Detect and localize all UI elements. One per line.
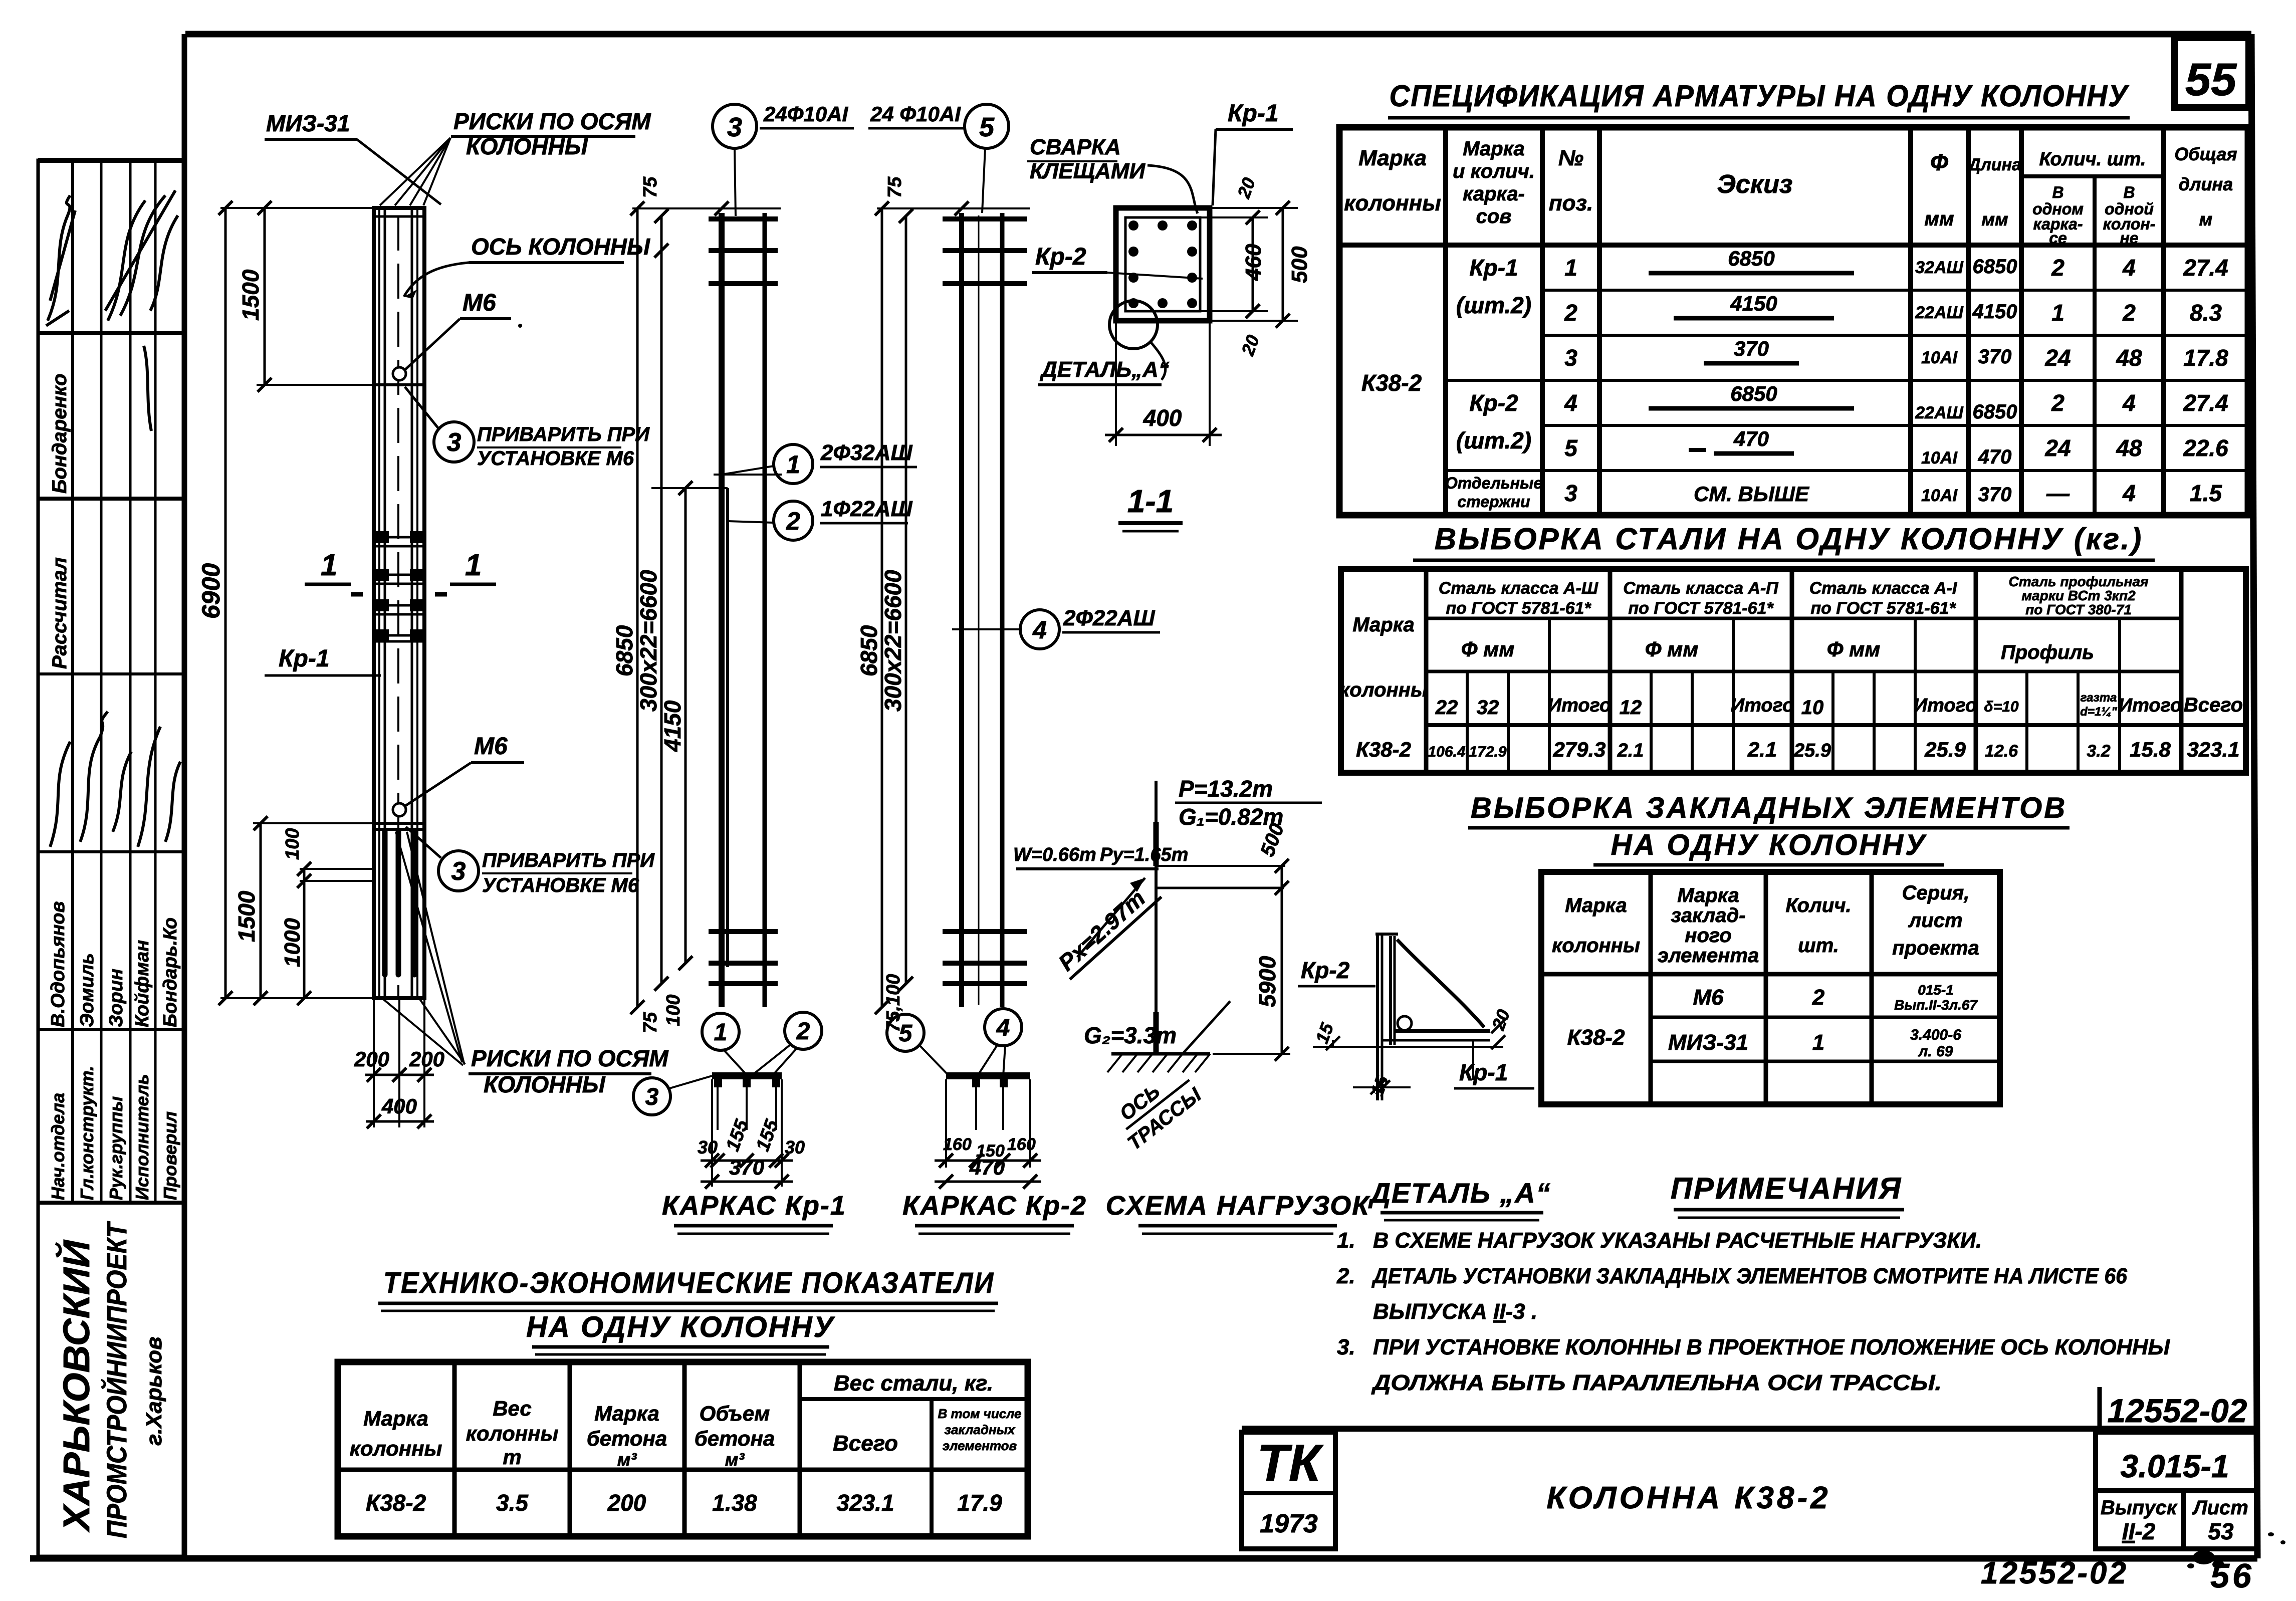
svg-text:3.: 3.: [1337, 1335, 1355, 1359]
svg-text:470: 470: [969, 1156, 1005, 1179]
svg-text:δ=10: δ=10: [1984, 699, 2019, 715]
svg-text:ДЕТАЛЬ „А“: ДЕТАЛЬ „А“: [1368, 1177, 1551, 1209]
callout 3 приварить (top): [405, 387, 650, 470]
svg-text:(шт.2): (шт.2): [1456, 427, 1531, 453]
svg-text:1Ф22АШ: 1Ф22АШ: [821, 497, 913, 521]
svg-text:по ГОСТ 5781-61*: по ГОСТ 5781-61*: [1628, 599, 1774, 618]
label сварка клещами: [1027, 135, 1198, 213]
svg-text:Кр-2: Кр-2: [1469, 390, 1518, 416]
svg-text:Р=13.2т: Р=13.2т: [1179, 776, 1273, 802]
dim 1500 bottom: [234, 816, 374, 1005]
svg-text:КОЛОННЫ: КОЛОННЫ: [484, 1071, 606, 1097]
svg-text:Марка: Марка: [1463, 138, 1525, 160]
svg-text:75: 75: [884, 176, 905, 198]
svg-text:2Ф22АШ: 2Ф22АШ: [1063, 606, 1156, 630]
svg-text:ного: ного: [1685, 925, 1731, 947]
Kr-1 dims: [611, 176, 781, 1033]
callout 3 24Ф10АІ above Kr-1: [713, 102, 854, 216]
svg-text:4150: 4150: [1730, 292, 1777, 315]
svg-text:Зорин: Зорин: [106, 969, 127, 1027]
svg-text:ХАРЬКОВСКИЙ: ХАРЬКОВСКИЙ: [55, 1239, 97, 1533]
svg-text:КАРКАС Кр-2: КАРКАС Кр-2: [902, 1191, 1087, 1221]
title: embedded elements table: [1468, 792, 2070, 865]
svg-text:Колич. шт.: Колич. шт.: [2039, 149, 2146, 170]
dim 100 1000: [280, 828, 374, 1005]
title: ТЭП table: [378, 1267, 998, 1354]
svg-text:КОЛОННА К38-2: КОЛОННА К38-2: [1546, 1481, 1830, 1515]
svg-text:Итого: Итого: [2119, 695, 2182, 716]
svg-text:3: 3: [451, 857, 466, 886]
svg-text:2: 2: [1812, 985, 1825, 1010]
svg-text:24Ф10АІ: 24Ф10АІ: [763, 102, 849, 126]
svg-text:бетона: бетона: [587, 1427, 667, 1450]
label Кр-1 on column: [265, 645, 381, 675]
specification table header text: [1344, 138, 2237, 247]
specification sketch column entries: [1649, 247, 1854, 506]
Kr-2 plan callouts: [887, 1009, 1022, 1076]
svg-text:Марка: Марка: [1352, 614, 1415, 636]
svg-text:шт.: шт.: [1798, 935, 1839, 957]
svg-text:d=1¼": d=1¼": [2080, 705, 2117, 719]
svg-text:1.: 1.: [1337, 1228, 1355, 1253]
svg-text:6850: 6850: [1730, 382, 1777, 405]
svg-text:370: 370: [1734, 337, 1769, 360]
svg-text:2.: 2.: [1336, 1264, 1355, 1288]
svg-text:200: 200: [409, 1047, 444, 1071]
ink blots near sheet number: [2187, 1532, 2285, 1568]
svg-text:75: 75: [640, 176, 661, 198]
svg-text:Кр-1: Кр-1: [279, 645, 330, 672]
svg-text:Рук.группы: Рук.группы: [106, 1096, 126, 1200]
dim 1500 top: [238, 201, 396, 392]
svg-text:проекта: проекта: [1892, 937, 1979, 959]
svg-text:15.8: 15.8: [2130, 738, 2171, 761]
svg-text:ПРИВАРИТЬ ПРИ: ПРИВАРИТЬ ПРИ: [477, 423, 650, 445]
svg-text:2: 2: [796, 1018, 810, 1045]
svg-text:НА ОДНУ КОЛОННУ: НА ОДНУ КОЛОННУ: [526, 1311, 835, 1343]
svg-text:Сталь класса А-І: Сталь класса А-І: [1809, 579, 1958, 598]
callout 5 24Ф10АІ above Kr-2: [868, 102, 1009, 213]
svg-text:(шт.2): (шт.2): [1456, 292, 1531, 318]
svg-text:2.1: 2.1: [1747, 738, 1777, 761]
svg-text:В.Одопьянов: В.Одопьянов: [48, 901, 69, 1027]
svg-text:2: 2: [2051, 390, 2064, 416]
svg-text:470: 470: [1978, 446, 2012, 468]
svg-text:W=0.66т: W=0.66т: [1013, 844, 1096, 865]
svg-text:СПЕЦИФИКАЦИЯ АРМАТУРЫ НА ОД: СПЕЦИФИКАЦИЯ АРМАТУРЫ НА ОДНУ КОЛОННУ: [1390, 79, 2130, 113]
svg-text:ОСЬ КОЛОННЫ: ОСЬ КОЛОННЫ: [471, 234, 650, 260]
callout circle 4 on Kr-2: [1020, 606, 1160, 649]
svg-text:длина: длина: [2179, 174, 2233, 194]
title block: [1242, 1429, 2257, 1549]
svg-text:м³: м³: [617, 1449, 637, 1470]
svg-text:470: 470: [1733, 427, 1769, 450]
svg-text:Кр-2: Кр-2: [1035, 244, 1086, 270]
svg-text:ВЫБОРКА СТАЛИ НА ОДНУ КОЛО: ВЫБОРКА СТАЛИ НА ОДНУ КОЛОННУ (кг.): [1435, 522, 2143, 556]
svg-text:МИЗ-31: МИЗ-31: [1668, 1030, 1748, 1055]
svg-text:по ГОСТ 5781-61*: по ГОСТ 5781-61*: [1446, 599, 1591, 618]
svg-text:6850: 6850: [1973, 256, 2017, 278]
label Кр-2 section: [1032, 244, 1203, 279]
svg-text:1-1: 1-1: [1127, 483, 1174, 519]
Kr-1 plan view: [712, 1072, 782, 1168]
svg-text:Ф: Ф: [1930, 149, 1948, 175]
dim 200 200 400 below column: [354, 998, 444, 1128]
detail A circle on section: [1038, 301, 1170, 385]
svg-text:Вес стали, кг.: Вес стали, кг.: [834, 1371, 993, 1396]
detail A drawing: [1313, 933, 1503, 1100]
handwritten bottom numbers: [1981, 1556, 2254, 1595]
svg-text:Колич.: Колич.: [1785, 894, 1851, 917]
steel selection table text: [1339, 574, 2243, 761]
svg-text:марки ВСт 3кп2: марки ВСт 3кп2: [2021, 588, 2136, 603]
sidebar signatures scribbles: [46, 190, 180, 847]
svg-text:10АІ: 10АІ: [1921, 448, 1958, 468]
svg-text:1500: 1500: [234, 890, 260, 942]
svg-text:м³: м³: [725, 1449, 745, 1470]
svg-text:2.1: 2.1: [1617, 740, 1644, 761]
Kr-2 plan dims: [935, 1135, 1041, 1189]
svg-text:4: 4: [1564, 390, 1577, 416]
svg-text:Марка: Марка: [1358, 146, 1427, 170]
svg-text:8.3: 8.3: [2190, 300, 2222, 326]
svg-text:10: 10: [1801, 697, 1824, 719]
svg-text:G₂=3.3т: G₂=3.3т: [1084, 1022, 1177, 1048]
svg-text:Марка: Марка: [1677, 884, 1739, 906]
svg-text:4150: 4150: [1972, 301, 2017, 323]
risk diagonal leaders bottom: [381, 832, 465, 1065]
svg-text:КАРКАС Кр-1: КАРКАС Кр-1: [662, 1191, 846, 1221]
svg-text:л. 69: л. 69: [1918, 1043, 1953, 1060]
svg-text:106.4: 106.4: [1428, 744, 1465, 760]
svg-text:Всего: Всего: [2184, 694, 2243, 716]
svg-text:Вес: Вес: [493, 1397, 532, 1420]
svg-text:5: 5: [979, 112, 995, 142]
svg-text:32: 32: [1477, 697, 1499, 719]
svg-text:3.015-1: 3.015-1: [2120, 1448, 2229, 1484]
svg-text:К38-2: К38-2: [1567, 1025, 1625, 1050]
dim 6900: [197, 201, 374, 1005]
specification table grid: [1339, 127, 2248, 515]
svg-text:Сталь класса А-П: Сталь класса А-П: [1623, 579, 1779, 598]
svg-text:Всего: Всего: [833, 1431, 898, 1456]
column M6 circles: [393, 367, 406, 816]
svg-text:Сталь профильная: Сталь профильная: [2008, 574, 2148, 589]
svg-text:В: В: [2123, 183, 2135, 201]
svg-text:ПРОМСТРОЙНИИПРОЕКТ: ПРОМСТРОЙНИИПРОЕКТ: [101, 1221, 132, 1538]
svg-text:Ф мм: Ф мм: [1827, 637, 1881, 661]
svg-text:Эомиль: Эомиль: [77, 953, 98, 1027]
svg-text:200: 200: [354, 1047, 389, 1071]
svg-text:РИСКИ ПО ОСЯМ: РИСКИ ПО ОСЯМ: [471, 1045, 669, 1071]
svg-text:2: 2: [2122, 300, 2136, 326]
svg-text:400: 400: [381, 1094, 417, 1118]
svg-text:12552-02: 12552-02: [2108, 1392, 2247, 1429]
title: steel selection table: [1413, 522, 2155, 560]
svg-text:160: 160: [943, 1135, 972, 1154]
svg-text:370: 370: [1978, 484, 2012, 506]
svg-text:1: 1: [714, 1019, 728, 1046]
svg-text:Профиль: Профиль: [2001, 641, 2094, 663]
svg-text:ПРИВАРИТЬ ПРИ: ПРИВАРИТЬ ПРИ: [482, 849, 655, 871]
svg-text:М6: М6: [474, 733, 508, 760]
svg-text:Итого: Итого: [1914, 695, 1977, 716]
svg-text:323.1: 323.1: [2187, 738, 2239, 761]
svg-text:1: 1: [1812, 1030, 1824, 1055]
svg-text:Эскиз: Эскиз: [1717, 170, 1793, 199]
svg-text:6850: 6850: [856, 625, 882, 676]
svg-text:30: 30: [785, 1137, 805, 1158]
svg-text:Исполнитель: Исполнитель: [132, 1074, 152, 1200]
label риски по осям колонны (top): [380, 108, 651, 205]
svg-text:1973: 1973: [1260, 1509, 1318, 1538]
steel selection table grid: [1341, 569, 2246, 773]
svg-text:015-1: 015-1: [1918, 982, 1954, 998]
svg-text:279.3: 279.3: [1552, 738, 1605, 761]
svg-text:5: 5: [1564, 435, 1578, 461]
svg-text:закладных: закладных: [945, 1422, 1016, 1437]
svg-text:Вып.ІІ-3л.67: Вып.ІІ-3л.67: [1894, 997, 1978, 1013]
svg-text:колонны: колонны: [1339, 679, 1428, 701]
svg-text:по ГОСТ 380-71: по ГОСТ 380-71: [2025, 602, 2132, 617]
svg-text:22АШ: 22АШ: [1915, 403, 1963, 422]
column stirrup splice bands: [374, 531, 424, 641]
svg-text:17.9: 17.9: [957, 1490, 1002, 1516]
svg-text:Проверил: Проверил: [160, 1111, 180, 1200]
svg-text:Гл.конструкт.: Гл.конструкт.: [77, 1066, 97, 1200]
svg-text:32АШ: 32АШ: [1915, 258, 1963, 277]
svg-text:К38-2: К38-2: [1361, 370, 1422, 396]
drawing titles: [662, 1191, 1370, 1234]
svg-text:1.38: 1.38: [712, 1490, 757, 1516]
svg-text:370: 370: [729, 1156, 764, 1179]
svg-text:30: 30: [698, 1137, 718, 1158]
svg-text:по ГОСТ 5781-61*: по ГОСТ 5781-61*: [1810, 599, 1956, 618]
svg-text:6850: 6850: [611, 625, 637, 676]
svg-text:1500: 1500: [238, 269, 264, 321]
svg-text:ДОЛЖНА БЫТЬ ПАРАЛЛЕЛЬНА ОСИ ТР: ДОЛЖНА БЫТЬ ПАРАЛЛЕЛЬНА ОСИ ТРАССЫ.: [1371, 1370, 1942, 1395]
load diagram: [1107, 781, 1285, 1072]
svg-text:се: се: [2049, 229, 2067, 247]
svg-text:25.9: 25.9: [1924, 738, 1966, 761]
detail A title: [1368, 1177, 1551, 1220]
svg-text:6900: 6900: [197, 563, 225, 619]
column M6 bands: [374, 385, 424, 829]
svg-text:27.4: 27.4: [2183, 255, 2228, 281]
svg-text:172.9: 172.9: [1469, 744, 1506, 760]
svg-text:Кр-2: Кр-2: [1301, 957, 1350, 983]
svg-text:ВЫПУСКА ІІ-3 .: ВЫПУСКА ІІ-3 .: [1373, 1299, 1537, 1324]
svg-text:370: 370: [1978, 346, 2012, 368]
svg-text:3: 3: [727, 112, 742, 142]
detail A labels: [1298, 957, 1534, 1099]
svg-text:500: 500: [1287, 246, 1312, 283]
svg-text:2: 2: [1564, 300, 1577, 326]
section title 1-1: [1118, 483, 1183, 531]
svg-text:стержни: стержни: [1457, 493, 1530, 511]
label М6 (top): [404, 290, 522, 371]
svg-text:Ф мм: Ф мм: [1645, 637, 1699, 661]
svg-text:4: 4: [2122, 255, 2136, 281]
svg-text:200: 200: [607, 1490, 646, 1516]
svg-text:3.400-6: 3.400-6: [1910, 1027, 1961, 1043]
svg-text:5900: 5900: [1254, 956, 1280, 1007]
specification table data: [1361, 255, 2228, 511]
label риски по осям колонны (bottom): [469, 1045, 669, 1097]
svg-text:г.Харьков: г.Харьков: [142, 1336, 166, 1446]
svg-text:К38-2: К38-2: [1356, 738, 1411, 761]
svg-text:НА ОДНУ КОЛОННУ: НА ОДНУ КОЛОННУ: [1611, 829, 1927, 861]
svg-text:№: №: [1558, 146, 1583, 170]
svg-text:3.5: 3.5: [496, 1490, 529, 1516]
svg-text:12552-02: 12552-02: [1981, 1556, 2128, 1590]
Kr-1 plan dims: [698, 1116, 805, 1189]
svg-text:1.5: 1.5: [2190, 480, 2222, 506]
svg-text:ТК: ТК: [1257, 1434, 1324, 1492]
svg-text:Кр-1: Кр-1: [1228, 100, 1279, 127]
svg-text:12: 12: [1620, 697, 1642, 719]
svg-text:В СХЕМЕ НАГРУЗОК УКАЗАНЫ РАСЧЕ: В СХЕМЕ НАГРУЗОК УКАЗАНЫ РАСЧЕТНЫЕ НАГРУ…: [1373, 1228, 1982, 1253]
svg-text:Нач.отдела: Нач.отдела: [48, 1093, 68, 1200]
frame Kr-2 elevation: [943, 213, 1027, 1007]
section dims: [1105, 175, 1312, 446]
svg-text:100: 100: [663, 995, 684, 1026]
svg-text:Бондаренко: Бондаренко: [49, 374, 71, 494]
svg-text:2: 2: [786, 507, 800, 535]
svg-text:22.6: 22.6: [2183, 435, 2228, 461]
svg-text:В: В: [2052, 183, 2063, 201]
svg-text:ПРИМЕЧАНИЯ: ПРИМЕЧАНИЯ: [1671, 1172, 1902, 1205]
svg-text:Сталь класса А-Ш: Сталь класса А-Ш: [1439, 579, 1598, 598]
svg-text:160: 160: [1007, 1135, 1036, 1154]
svg-text:4150: 4150: [659, 700, 685, 752]
svg-text:Кр-1: Кр-1: [1469, 255, 1518, 281]
svg-text:РИСКИ ПО ОСЯМ: РИСКИ ПО ОСЯМ: [453, 108, 651, 134]
left signature sidebar: [38, 160, 184, 1556]
svg-text:56: 56: [2210, 1557, 2254, 1595]
svg-text:53: 53: [2208, 1518, 2234, 1544]
svg-text:17.8: 17.8: [2183, 345, 2228, 371]
svg-text:75: 75: [640, 1012, 661, 1033]
svg-text:300x22=6600: 300x22=6600: [880, 570, 906, 712]
svg-text:27.4: 27.4: [2183, 390, 2228, 416]
svg-text:1: 1: [465, 548, 482, 582]
svg-text:Отдельные: Отдельные: [1445, 474, 1542, 492]
svg-text:ІІ-2: ІІ-2: [2122, 1518, 2156, 1544]
svg-text:Итого: Итого: [1548, 695, 1611, 716]
svg-text:1: 1: [321, 548, 337, 582]
Kr-2 plan view: [946, 1072, 1030, 1168]
svg-text:1: 1: [1564, 255, 1577, 281]
ТЭП table: [338, 1362, 1028, 1536]
svg-text:4: 4: [996, 1015, 1010, 1041]
svg-text:5: 5: [899, 1020, 913, 1047]
svg-text:поз.: поз.: [1549, 191, 1593, 215]
svg-text:Итого: Итого: [1731, 695, 1794, 716]
svg-text:12.6: 12.6: [1985, 742, 2018, 761]
svg-text:М6: М6: [463, 290, 496, 316]
column lower thick rebars: [385, 832, 414, 975]
svg-text:323.1: 323.1: [836, 1490, 894, 1516]
svg-text:Рассчитал: Рассчитал: [49, 557, 71, 669]
label МИЗ-31: [265, 110, 441, 204]
Kr-1 plan callouts: [633, 1012, 822, 1115]
svg-text:м: м: [2199, 209, 2213, 230]
svg-text:3: 3: [1564, 345, 1577, 371]
order number big: [2100, 1387, 2247, 1429]
svg-text:3.2: 3.2: [2087, 742, 2110, 761]
svg-text:УСТАНОВКЕ М6: УСТАНОВКЕ М6: [477, 447, 634, 470]
svg-text:лист: лист: [1908, 909, 1962, 932]
svg-text:бетона: бетона: [695, 1427, 775, 1450]
svg-text:48: 48: [2116, 435, 2142, 461]
svg-text:22: 22: [1435, 697, 1458, 719]
load diagram dims 500 5900: [1213, 820, 1290, 1061]
svg-text:Общая: Общая: [2174, 144, 2237, 164]
svg-text:55: 55: [2185, 54, 2237, 105]
svg-text:колонны: колонны: [1344, 191, 1441, 215]
callout 3 приварить (bottom): [406, 827, 655, 896]
svg-text:6850: 6850: [1728, 247, 1774, 270]
svg-text:Длина: Длина: [1967, 155, 2021, 174]
svg-text:460: 460: [1241, 244, 1266, 281]
svg-text:6850: 6850: [1973, 401, 2017, 423]
svg-text:Лист: Лист: [2192, 1497, 2248, 1519]
svg-text:колонны: колонны: [1552, 935, 1640, 957]
svg-text:колонны: колонны: [466, 1422, 559, 1445]
svg-text:Бондарь.Ко: Бондарь.Ко: [160, 918, 181, 1027]
svg-text:М6: М6: [1693, 985, 1724, 1010]
svg-text:т: т: [503, 1445, 521, 1469]
svg-text:22АШ: 22АШ: [1915, 303, 1963, 322]
svg-text:3: 3: [1564, 480, 1577, 506]
svg-text:10АІ: 10АІ: [1921, 486, 1958, 505]
page number box 55: [2175, 38, 2249, 108]
frame Kr-1 elevation: [651, 213, 782, 1007]
column elevation outline: [374, 208, 424, 998]
svg-text:ДЕТАЛЬ„А“: ДЕТАЛЬ„А“: [1039, 357, 1170, 382]
svg-text:ДЕТАЛЬ УСТАНОВКИ ЗАКЛАДНЫХ ЭЛЕ: ДЕТАЛЬ УСТАНОВКИ ЗАКЛАДНЫХ ЭЛЕМЕНТОВ СМО…: [1371, 1264, 2127, 1288]
svg-text:Объем: Объем: [700, 1402, 770, 1425]
svg-text:газта: газта: [2081, 691, 2117, 705]
svg-text:элемента: элемента: [1658, 945, 1759, 967]
svg-text:24: 24: [2044, 345, 2071, 371]
svg-text:ТЕХНИКО-ЭКОНОМИЧЕСКИЕ ПОКАЗАТ: ТЕХНИКО-ЭКОНОМИЧЕСКИЕ ПОКАЗАТЕЛИ: [383, 1267, 995, 1299]
svg-text:4: 4: [1032, 616, 1047, 644]
svg-text:400: 400: [1143, 405, 1182, 431]
svg-text:колонны: колонны: [350, 1437, 442, 1460]
svg-text:карка-: карка-: [1463, 183, 1525, 205]
svg-text:24: 24: [2044, 435, 2071, 461]
svg-text:В том числе: В том числе: [938, 1406, 1022, 1421]
svg-text:мм: мм: [1924, 208, 1954, 230]
svg-text:25.9: 25.9: [1793, 740, 1831, 761]
svg-text:КЛЕЩАМИ: КЛЕЩАМИ: [1030, 159, 1146, 183]
svg-text:СВАРКА: СВАРКА: [1030, 135, 1121, 159]
svg-text:МИЗ-31: МИЗ-31: [266, 110, 350, 136]
embedded elements table: [1541, 872, 2000, 1104]
svg-text:Ф мм: Ф мм: [1461, 637, 1515, 661]
notes text: [1336, 1228, 2170, 1395]
svg-text:3: 3: [447, 428, 462, 457]
svg-text:элементов: элементов: [943, 1438, 1017, 1453]
svg-text:ВЫБОРКА ЗАКЛАДНЫХ ЭЛЕМЕНТОВ: ВЫБОРКА ЗАКЛАДНЫХ ЭЛЕМЕНТОВ: [1471, 792, 2067, 824]
load labels: [1013, 776, 1322, 1155]
svg-text:Марка: Марка: [594, 1402, 659, 1425]
svg-text:4: 4: [2122, 480, 2136, 506]
svg-text:Марка: Марка: [363, 1407, 428, 1430]
svg-text:48: 48: [2116, 345, 2142, 371]
